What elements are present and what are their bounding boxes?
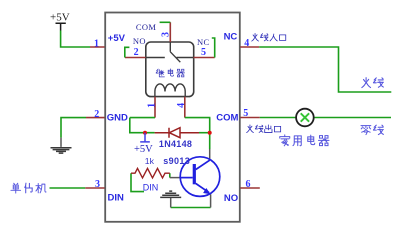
svg-text:+5V: +5V <box>108 33 126 44</box>
svg-text:5: 5 <box>243 108 248 119</box>
svg-text:+5V: +5V <box>50 12 70 24</box>
svg-text:6: 6 <box>246 179 251 190</box>
svg-text:1k: 1k <box>145 156 155 166</box>
svg-text:1: 1 <box>94 38 99 49</box>
svg-text:3: 3 <box>161 32 172 37</box>
svg-text:4: 4 <box>244 38 249 49</box>
svg-text:3: 3 <box>95 179 100 190</box>
svg-text:1: 1 <box>146 103 157 108</box>
svg-text:4: 4 <box>176 103 187 108</box>
svg-text:COM: COM <box>216 112 238 123</box>
svg-text:COM: COM <box>136 22 157 32</box>
svg-text:2: 2 <box>134 47 139 58</box>
svg-text:NO: NO <box>224 193 238 204</box>
svg-text:GND: GND <box>107 113 128 124</box>
svg-text:NC: NC <box>224 31 238 42</box>
svg-text:DIN: DIN <box>108 192 125 203</box>
svg-text:s9013: s9013 <box>163 156 190 166</box>
svg-text:1N4148: 1N4148 <box>159 139 192 149</box>
svg-text:DIN: DIN <box>143 182 159 192</box>
svg-text:2: 2 <box>94 109 99 120</box>
svg-text:NO: NO <box>133 36 146 46</box>
svg-text:NC: NC <box>197 37 210 47</box>
svg-text:+5V: +5V <box>134 144 153 155</box>
svg-text:5: 5 <box>201 47 206 58</box>
